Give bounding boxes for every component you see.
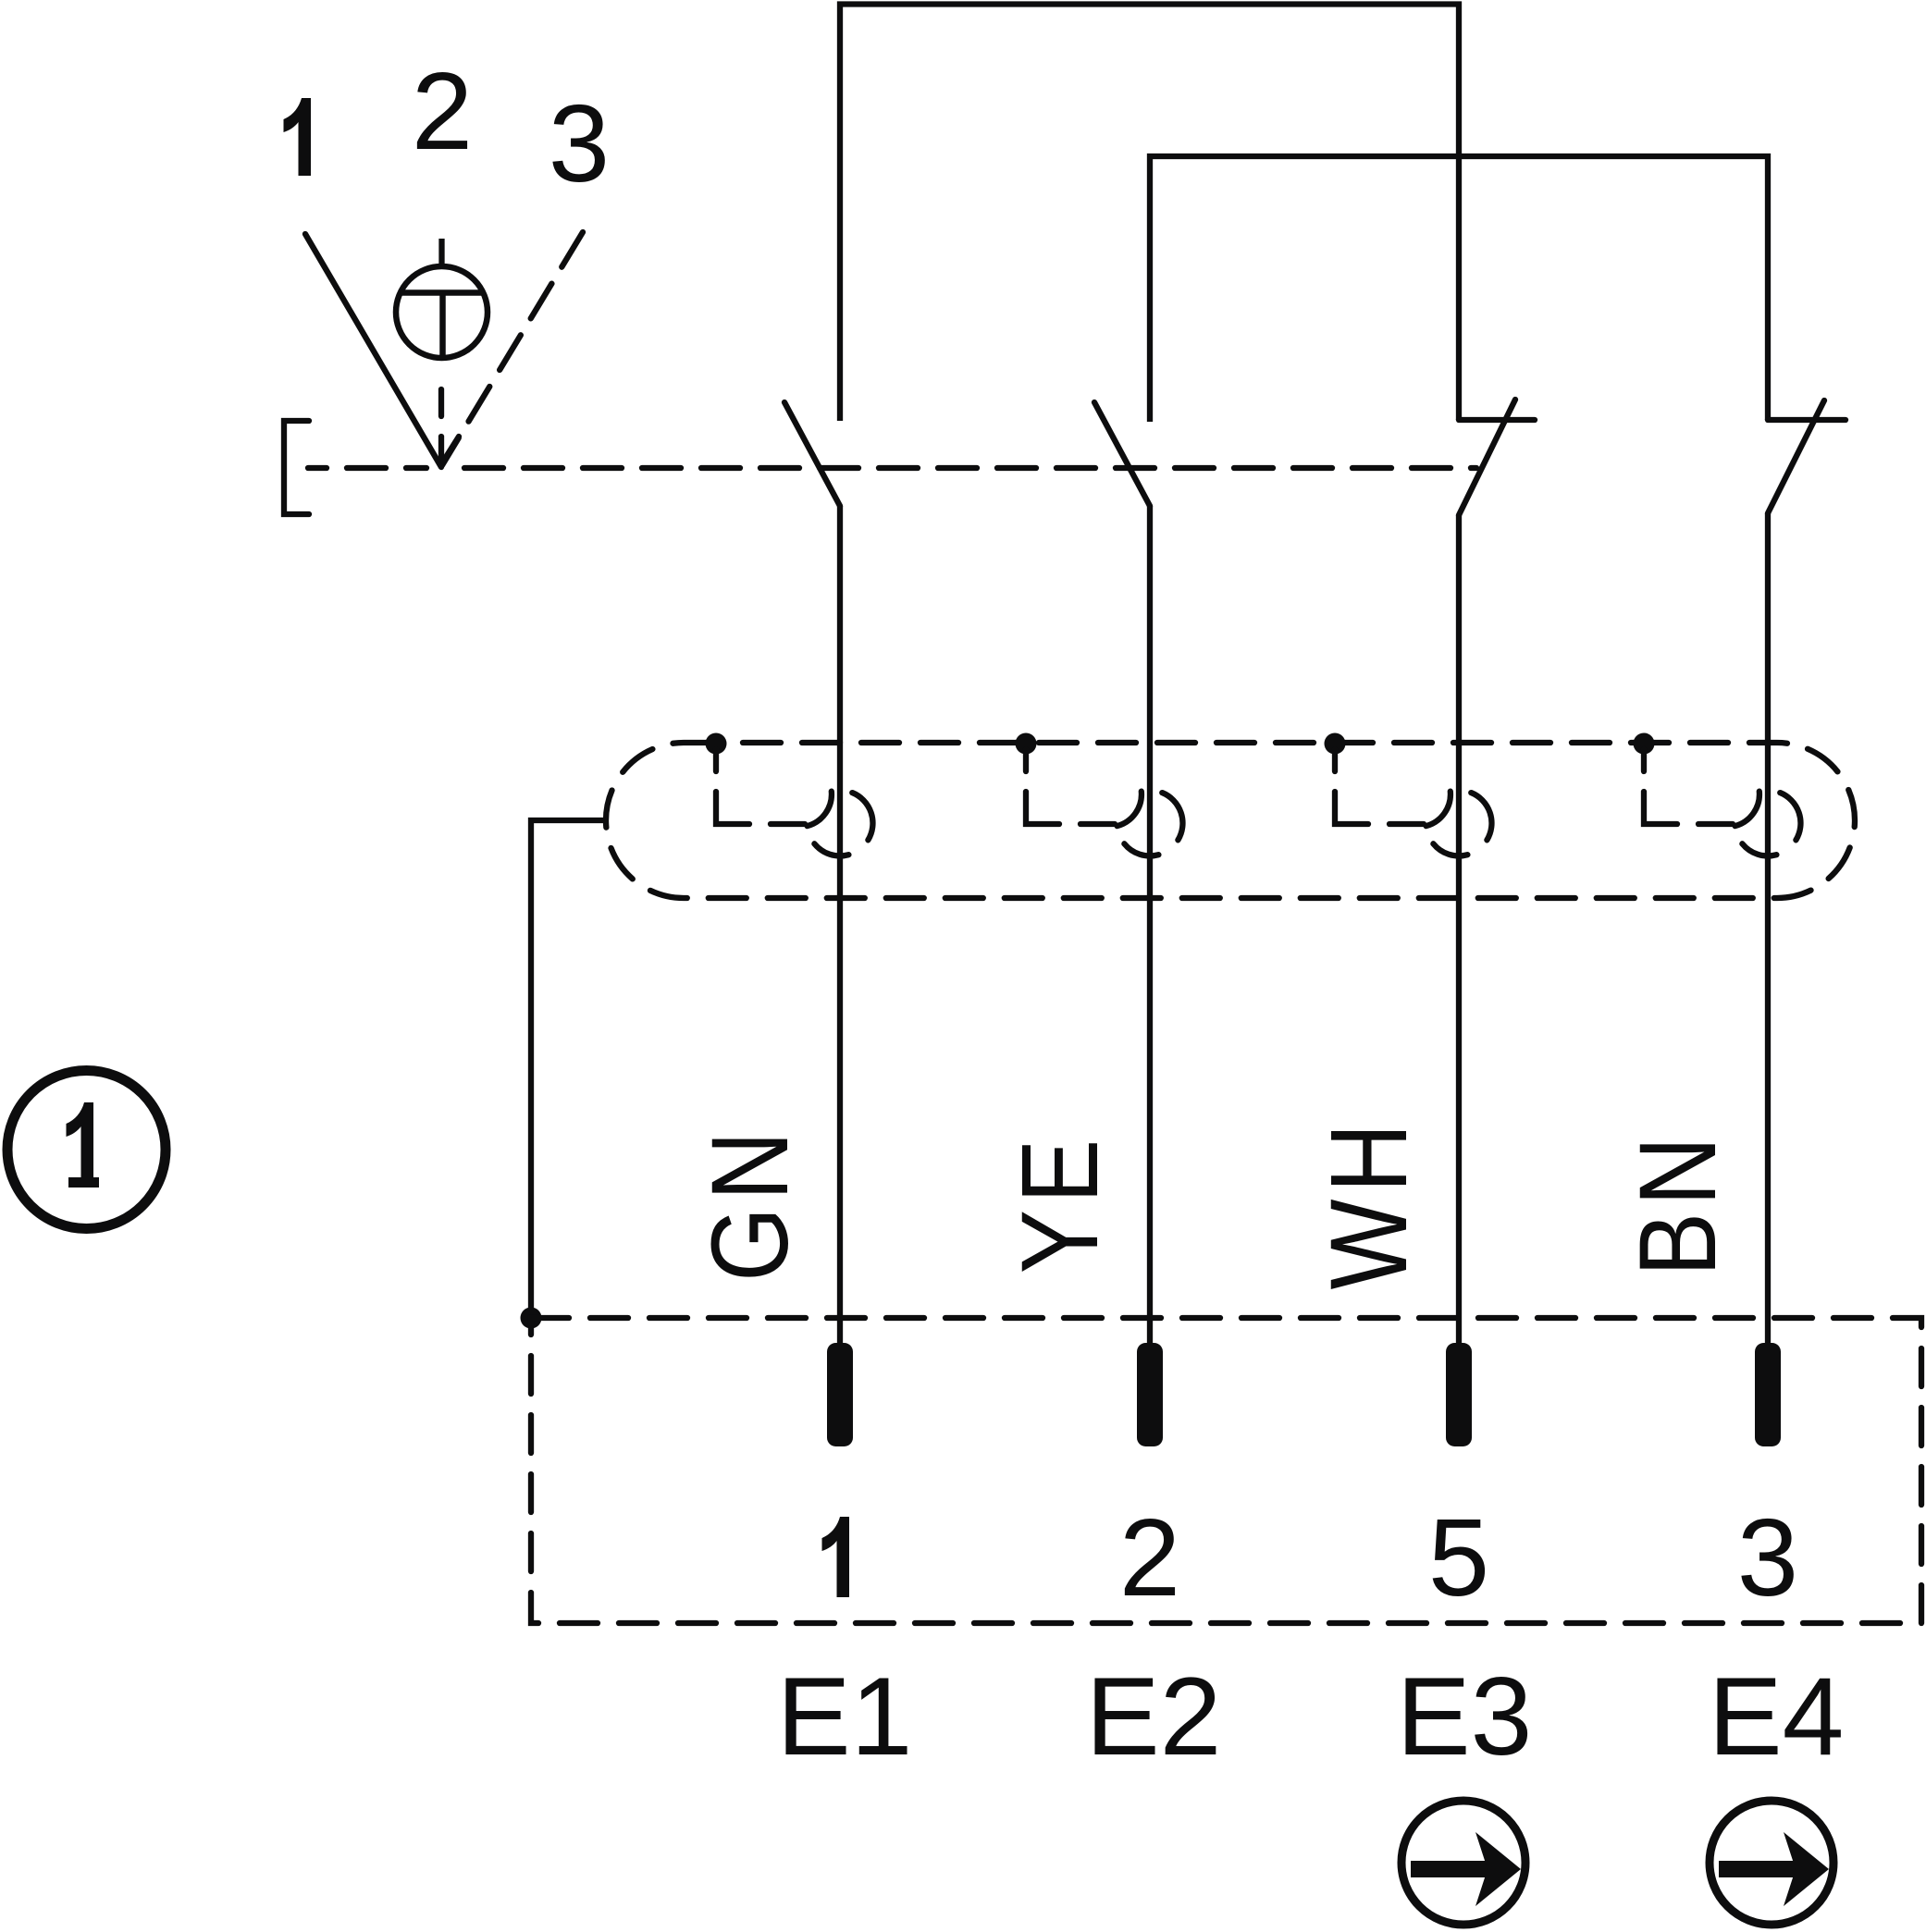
switch contact E2 (NO) blade: [1094, 402, 1150, 506]
wire loop E1: column 1 up, across the top, down to switch E3 jog: [840, 5, 1459, 422]
wire below switch E4 down to pin 3: [1765, 513, 1771, 1343]
svg-text:2: 2: [412, 50, 473, 173]
mechanical actuation line right run (dashed): [464, 465, 1476, 471]
svg-text:E4: E4: [1709, 1655, 1845, 1778]
actuator arm position 3 (dashed): [442, 232, 583, 465]
pin number 1: [822, 1517, 850, 1597]
callout circle 1: [7, 1071, 166, 1229]
direction arrow symbol: [1401, 1801, 1525, 1925]
dashed hook wire to socket 3: [1335, 749, 1429, 824]
svg-text:5: 5: [1428, 1496, 1489, 1619]
actuator arm position 1 (solid): [305, 234, 441, 467]
callout 1 foot serif: [68, 1177, 99, 1188]
svg-text:E2: E2: [1086, 1655, 1222, 1778]
socket circle 2: [1117, 792, 1183, 856]
wire from plug shield to box: [531, 820, 606, 1318]
actuator arrow centre dashes: [438, 389, 444, 416]
pin contact bar 2: [1137, 1343, 1163, 1446]
svg-text:E1: E1: [777, 1655, 913, 1778]
svg-text:GN: GN: [688, 1125, 811, 1282]
wire loop E2: column 2 up, across, down to switch E4 jog: [1150, 156, 1768, 422]
switch E4 fixed terminal jog: [1768, 417, 1846, 423]
switch contact E4 (NO) blade: [1768, 400, 1824, 513]
socket circle 1: [808, 792, 873, 856]
pin contact bar 5: [1446, 1343, 1472, 1446]
junction dot pin 2: [1016, 733, 1037, 755]
label 1 (actuator position): [284, 98, 312, 176]
svg-text:3: 3: [549, 82, 610, 205]
svg-text:E3: E3: [1397, 1655, 1533, 1778]
switch contact E1 (NO) blade: [784, 402, 840, 506]
svg-text:BN: BN: [1616, 1130, 1739, 1276]
device box (dashed): [531, 1318, 1921, 1623]
switch contact E3 (NO) blade: [1459, 400, 1515, 515]
dashed hook wire to socket 1: [716, 749, 810, 824]
push-button stem: [439, 293, 446, 359]
mechanical actuation line left run (dashed): [308, 465, 426, 471]
pin contact bar 1: [827, 1343, 853, 1446]
actuator arrow right barb: [443, 437, 459, 461]
svg-text:WH: WH: [1307, 1116, 1430, 1289]
pin contact bar 3: [1755, 1343, 1781, 1446]
switch E3 fixed terminal jog: [1459, 417, 1535, 423]
junction dot at box corner: [521, 1308, 542, 1329]
socket circle 4: [1735, 792, 1801, 856]
junction dot pin 1: [706, 733, 727, 755]
stub above push-button: [438, 239, 444, 267]
junction dot pin 4: [1634, 733, 1655, 755]
socket circle 3: [1426, 792, 1492, 856]
dashed hook wire to socket 2: [1026, 749, 1120, 824]
wire below switch E1 down to pin 1: [837, 506, 843, 1343]
push-button chord: [401, 289, 484, 296]
actuator push-button circle: [396, 266, 488, 358]
svg-text:2: 2: [1119, 1496, 1180, 1619]
svg-text:YE: YE: [998, 1133, 1121, 1274]
svg-text:3: 3: [1737, 1496, 1798, 1619]
wire below switch E3 down to pin 5: [1456, 515, 1462, 1343]
direction arrow symbol: [1710, 1801, 1833, 1925]
bracket at left end of actuation line: [284, 421, 309, 514]
dashed hook wire to socket 4: [1644, 749, 1738, 824]
wire below switch E2 down to pin 2: [1147, 506, 1153, 1343]
junction dot pin 3: [1325, 733, 1346, 755]
plug connector outline (dashed stadium): [606, 743, 1855, 898]
